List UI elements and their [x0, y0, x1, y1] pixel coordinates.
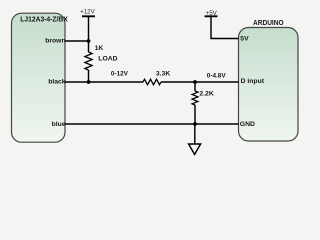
junction node ground rail — [193, 122, 197, 126]
svg-text:0-4.8V: 0-4.8V — [207, 73, 227, 80]
arduino box ARDUINO — [239, 28, 299, 142]
svg-text:brown: brown — [45, 38, 65, 45]
junction node at brown/+12V — [87, 39, 91, 43]
supply +5V symbol — [205, 10, 218, 39]
svg-text:LOAD: LOAD — [98, 55, 117, 62]
wire brown: sensor to +12V node — [65, 40, 89, 42]
wire black: sensor to 3.3K — [65, 81, 143, 83]
junction node 1K/black wire — [87, 80, 91, 84]
wire black: 3.3K to arduino D input — [161, 81, 239, 83]
svg-text:5V: 5V — [240, 36, 249, 43]
wire blue/ground rail: sensor to arduino GND — [65, 123, 239, 125]
svg-text:1K: 1K — [95, 45, 104, 52]
svg-text:GND: GND — [240, 121, 255, 128]
svg-text:LJ12A3-4-Z/BX: LJ12A3-4-Z/BX — [20, 15, 68, 24]
resistor R2 3.3K — [143, 79, 161, 85]
svg-text:+12V: +12V — [80, 9, 95, 16]
svg-text:blue: blue — [52, 121, 66, 128]
svg-text:3.3K: 3.3K — [156, 70, 170, 77]
wire +5V to arduino 5V pin — [210, 38, 238, 40]
supply +12V symbol — [80, 9, 95, 41]
resistor R3 2.2K — [192, 82, 198, 124]
svg-text:ARDUINO: ARDUINO — [253, 20, 284, 27]
svg-text:0-12V: 0-12V — [111, 71, 129, 78]
svg-text:D input: D input — [241, 78, 265, 85]
svg-text:black: black — [48, 79, 66, 86]
junction node divider tap — [193, 80, 197, 84]
sensor box LJ12A3-4-Z/BX — [12, 13, 66, 142]
ground symbol — [189, 124, 201, 154]
resistor R1 1K (LOAD) — [85, 41, 92, 82]
svg-text:2.2K: 2.2K — [199, 91, 213, 98]
